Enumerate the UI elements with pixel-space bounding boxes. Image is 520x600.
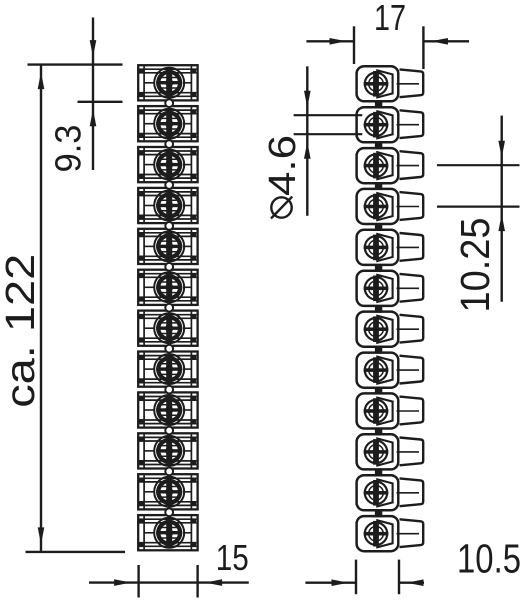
terminal body 4 (side view): [357, 189, 399, 224]
screw head M5 (front): [154, 231, 184, 261]
link between body 2 and 3: [375, 142, 382, 149]
hole between cell 11 and 12: [165, 508, 173, 516]
wire nozzle 2: [397, 110, 424, 138]
screw head M7 (front): [154, 313, 184, 343]
svg-text:10.5: 10.5: [457, 536, 520, 582]
dimension ø4.6 : dimension line with arrows: [304, 66, 311, 216]
hole between cell 4 and 5: [165, 222, 173, 230]
terminal cell 8 (front view): [138, 352, 197, 387]
wire nozzle 8: [397, 356, 424, 384]
screw housing wedge 1: [377, 70, 392, 97]
dimension 10.25 : extension lines from nozzle axes: [437, 165, 520, 206]
hole between cell 7 and 8: [165, 345, 173, 353]
terminal cell 1 (front view): [138, 65, 197, 100]
hole between cell 3 and 4: [165, 181, 173, 189]
link between body 7 and 8: [375, 347, 382, 354]
screw housing wedge 10: [377, 439, 392, 466]
dimension ca.122 : extension line bottom: [26, 551, 126, 553]
link between body 1 and 2: [375, 101, 382, 108]
screw head M6 (front): [154, 272, 184, 302]
screw housing wedge 8: [377, 357, 392, 384]
dimension 10.25 : dimension line with arrows: [498, 116, 505, 302]
screw housing wedge 11: [377, 479, 392, 506]
terminal body 9 (side view): [357, 393, 399, 428]
screw head 1 (side): [364, 71, 389, 97]
dimension text ø 4.6: [262, 135, 304, 219]
screw housing wedge 12: [377, 520, 392, 547]
dimension 9.3 : extension line at first gap: [78, 101, 123, 103]
hole between cell 10 and 11: [165, 468, 173, 476]
link between body 4 and 5: [375, 224, 382, 231]
wire nozzle 3: [397, 151, 424, 179]
screw head M10 (front): [154, 436, 184, 466]
link between body 8 and 9: [375, 388, 382, 395]
screw head M4 (front): [154, 191, 184, 221]
terminal cell 4 (front view): [138, 188, 197, 223]
terminal cell 10 (front view): [138, 433, 197, 468]
wire nozzle 6: [397, 274, 424, 302]
screw head M1 (front): [154, 68, 184, 98]
link between body 11 and 12: [375, 510, 382, 517]
terminal body 3 (side view): [357, 148, 399, 183]
terminal cell 2 (front view): [138, 106, 197, 141]
wire nozzle 10: [397, 438, 424, 466]
hole between cell 1 and 2: [165, 99, 173, 107]
dimension ca.122 : dimension line with arrows: [38, 65, 45, 552]
screw head M3 (front): [154, 150, 184, 180]
dimension 17 : dimension line with arrows: [306, 38, 469, 45]
terminal cell 6 (front view): [138, 270, 197, 305]
wire nozzle 11: [397, 478, 424, 506]
screw head 10 (side): [364, 439, 389, 465]
screw head 4 (side): [364, 194, 389, 220]
dimension ca.122 : extension line top: [28, 63, 123, 65]
link between body 6 and 7: [375, 306, 382, 313]
screw head 6 (side): [364, 276, 389, 302]
screw head M2 (front): [154, 109, 184, 139]
screw head 9 (side): [364, 398, 389, 424]
terminal cell 12 (front view): [138, 515, 197, 550]
link between body 5 and 6: [375, 265, 382, 272]
screw housing wedge 5: [377, 234, 392, 261]
wire nozzle 12: [397, 519, 424, 547]
dimension 9.3 : dimension line with arrows: [90, 18, 97, 171]
link between body 9 and 10: [375, 428, 382, 435]
screw head M11 (front): [154, 477, 184, 507]
terminal body 1 (side view): [357, 66, 399, 101]
terminal body 8 (side view): [357, 353, 399, 388]
terminal body 6 (side view): [357, 271, 399, 306]
terminal cell 9 (front view): [138, 392, 197, 427]
terminal cell 5 (front view): [138, 229, 197, 264]
terminal body 2 (side view): [357, 107, 399, 142]
hole between cell 9 and 10: [165, 427, 173, 435]
screw head 2 (side): [364, 112, 389, 138]
screw housing wedge 2: [377, 111, 392, 138]
wire nozzle 1: [397, 69, 424, 97]
wire nozzle 9: [397, 397, 424, 425]
terminal cell 7 (front view): [138, 311, 197, 346]
wire nozzle 4: [397, 192, 424, 220]
terminal cell 3 (front view): [138, 147, 197, 182]
wire nozzle 5: [397, 233, 424, 261]
svg-text:17: 17: [374, 0, 406, 38]
screw head 7 (side): [364, 316, 389, 342]
dimension 10.5 : dimension line with arrows: [305, 579, 424, 586]
hole between cell 8 and 9: [165, 386, 173, 394]
screw head M8 (front): [154, 354, 184, 384]
svg-text:ca. 122: ca. 122: [0, 254, 43, 408]
screw head 5 (side): [364, 235, 389, 261]
screw housing wedge 7: [377, 316, 392, 343]
hole between cell 2 and 3: [165, 140, 173, 148]
dimension 10.5 : extension lines: [356, 560, 399, 595]
screw head M12 (front): [154, 518, 184, 548]
dimension 15 : extension lines: [139, 565, 198, 598]
terminal body 11 (side view): [357, 475, 399, 510]
terminal body 5 (side view): [357, 230, 399, 265]
link between body 3 and 4: [375, 183, 382, 190]
screw head M9 (front): [154, 395, 184, 425]
terminal body 12 (side view): [357, 516, 399, 551]
svg-text:4.6: 4.6: [262, 135, 304, 196]
terminal cell 11 (front view): [138, 474, 197, 509]
screw head 12 (side): [364, 521, 389, 547]
link between body 10 and 11: [375, 469, 382, 476]
svg-text:9.3: 9.3: [48, 125, 89, 173]
screw housing wedge 4: [377, 193, 392, 220]
hole between cell 5 and 6: [165, 263, 173, 271]
terminal body 7 (side view): [357, 312, 399, 347]
screw head 11 (side): [364, 480, 389, 506]
wire nozzle 7: [397, 315, 424, 343]
screw housing wedge 6: [377, 275, 392, 302]
svg-text:15: 15: [216, 537, 249, 578]
screw head 3 (side): [364, 153, 389, 179]
dimension 15 : dimension line with arrows: [89, 579, 249, 586]
dimension 17 : extension lines: [354, 26, 423, 69]
screw head 8 (side): [364, 357, 389, 383]
hole between cell 6 and 7: [165, 304, 173, 312]
dimension ø4.6 : extension lines tangent to screw: [294, 115, 363, 134]
screw housing wedge 9: [377, 398, 392, 425]
terminal body 10 (side view): [357, 434, 399, 469]
svg-text:10.25: 10.25: [452, 218, 498, 313]
screw housing wedge 3: [377, 152, 392, 179]
